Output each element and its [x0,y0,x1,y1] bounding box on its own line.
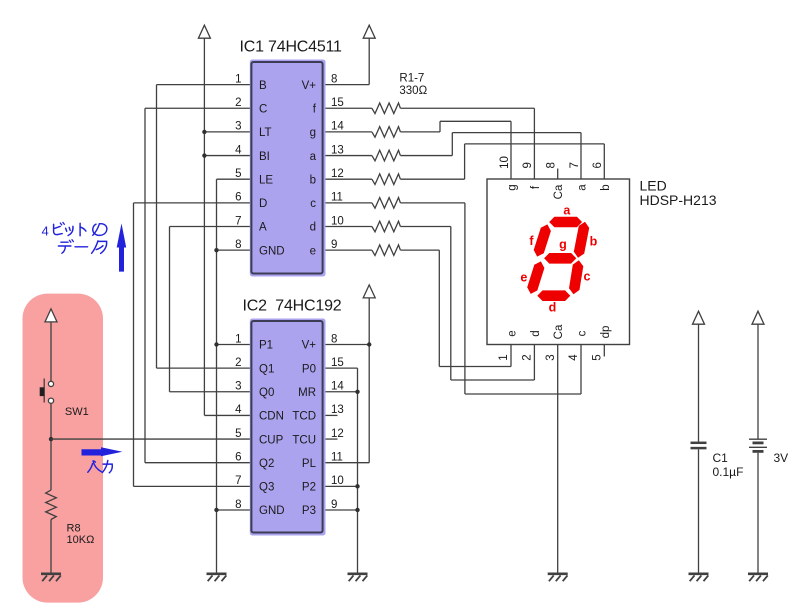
svg-text:3: 3 [235,381,241,393]
svg-text:8: 8 [235,499,241,511]
wire P2 [322,485,358,487]
svg-text:b: b [590,234,598,248]
wire LE to ground rail [217,178,253,180]
wire e [400,249,439,251]
svg-text:5: 5 [235,168,241,180]
junction LT [202,130,206,134]
wire net C-Q2 [145,107,253,109]
svg-text:d: d [310,222,316,234]
wire BI [204,155,252,157]
svg-text:e: e [310,245,316,257]
svg-text:B: B [259,80,267,92]
svg-text:P1: P1 [259,340,273,352]
svg-text:10: 10 [499,156,511,169]
resistor R5 (c) [322,202,372,204]
svg-text:D: D [259,198,267,210]
resistor R4 (b) [322,178,372,180]
svg-text:b: b [310,174,316,186]
ground under IC2 left [207,572,227,575]
svg-text:P2: P2 [302,482,316,494]
svg-text:Ca: Ca [553,184,565,199]
svg-text:V+: V+ [302,340,317,352]
svg-text:GND: GND [259,245,285,257]
svg-text:4: 4 [568,354,580,361]
svg-text:8: 8 [546,162,558,168]
svg-text:1: 1 [235,333,241,345]
wire c [400,202,465,204]
junction IC2 V+ [367,342,371,346]
svg-text:V+: V+ [302,80,317,92]
svg-text:R8: R8 [67,523,81,535]
wire C1 bottom [698,449,700,572]
svg-text:Q0: Q0 [259,387,274,399]
ground under IC2 right [348,572,368,575]
svg-text:Q2: Q2 [259,458,274,470]
svg-text:g: g [559,237,567,251]
label input (Japanese) nyuuryoku [93,461,95,462]
pink highlight region [23,294,104,603]
svg-text:11: 11 [331,452,343,464]
svg-text:b: b [600,184,612,190]
resistor R7 (e) [322,249,372,251]
wire P3 [322,509,358,511]
svg-text:7: 7 [235,215,241,227]
svg-text:9: 9 [331,499,337,511]
IC U1 74HC4511 [250,60,326,277]
wire d [400,226,450,228]
svg-text:2: 2 [235,97,241,109]
capacitor C1 [691,442,707,445]
svg-text:3: 3 [545,354,557,360]
wire IC2 GND [217,509,253,511]
svg-text:15: 15 [331,97,344,109]
wire battery bottom [757,453,759,573]
blue data arrow [117,223,127,271]
svg-text:8: 8 [331,73,337,85]
wire net A-Q0 [170,226,253,228]
svg-text:8: 8 [331,333,337,345]
svg-text:TCU: TCU [292,434,316,446]
wire PL [322,462,369,464]
svg-text:e: e [520,270,527,284]
wire switch to R8 [50,403,52,490]
LED display HDSP-H213 [487,179,630,345]
pin stub TCD [322,414,338,416]
resistor R8 [46,490,57,520]
svg-text:d: d [549,301,557,315]
wire Ca cathode [557,345,559,573]
power symbol V+ IC2 [322,344,369,346]
wire g [400,131,440,133]
svg-text:14: 14 [331,381,344,393]
svg-text:e: e [507,330,519,336]
power symbol V+ IC1 [322,84,369,86]
wire battery top [757,324,759,439]
junction IC1 GND [214,248,218,252]
power symbol V+ battery [752,311,764,324]
segment g [544,253,576,264]
junction P2 [355,484,359,488]
wire CUP input [51,438,253,440]
resistor R1 (f) [322,107,372,109]
IC U2 74HC192 [250,319,326,536]
segment c [569,260,583,294]
svg-text:d: d [530,330,542,336]
svg-text:12: 12 [331,168,344,180]
svg-text:5: 5 [235,428,241,440]
segment f [534,224,551,256]
pin stub TCU [322,438,338,440]
svg-text:10KΩ: 10KΩ [67,534,95,546]
svg-text:15: 15 [331,357,344,369]
svg-text:c: c [584,270,591,284]
svg-text:g: g [310,127,316,139]
svg-text:7: 7 [569,162,581,168]
junction MR [355,390,359,394]
resistor R3 (a) [322,155,372,157]
svg-text:C1: C1 [713,451,729,465]
svg-text:9: 9 [331,239,337,251]
wire switch top [50,322,52,381]
svg-text:6: 6 [235,452,241,464]
label line2: de-ta [61,241,68,243]
svg-text:A: A [259,222,267,234]
wire MR [322,391,358,393]
svg-text:CDN: CDN [259,411,284,423]
svg-text:0.1µF: 0.1µF [713,465,744,479]
ground under LED [548,572,568,575]
junction P3 [355,508,359,512]
svg-text:P0: P0 [302,363,316,375]
ground under C1 [689,572,709,575]
wire P0 to ground rail [322,367,358,369]
junction IC2 GND [214,508,218,512]
svg-text:8: 8 [235,239,241,251]
svg-text:g: g [507,184,519,190]
wire LT [204,131,252,133]
wire f [400,107,534,109]
segment e [527,261,544,294]
svg-text:10: 10 [331,215,344,227]
wire net D-Q3 [134,202,253,204]
wire a [400,155,452,157]
svg-text:C: C [259,103,267,115]
svg-text:MR: MR [298,387,316,399]
svg-text:1: 1 [498,354,510,360]
svg-text:Q1: Q1 [259,363,274,375]
svg-text:4: 4 [42,223,49,238]
svg-text:CUP: CUP [259,434,284,446]
svg-text:a: a [563,204,571,218]
svg-text:R1-7: R1-7 [399,73,424,85]
segment a [549,217,582,228]
svg-text:4: 4 [235,404,242,416]
wire C1 top [698,324,700,441]
svg-text:10: 10 [331,475,344,487]
svg-text:TCD: TCD [292,411,316,423]
svg-text:LE: LE [259,174,273,186]
pin stub Ca top [557,169,559,180]
wire CDN [204,414,252,416]
power symbol V+ C1 [693,311,705,324]
svg-text:3: 3 [235,121,241,133]
svg-text:GND: GND [259,505,285,517]
wire IC1 GND [217,249,253,251]
svg-text:IC2 74HC192: IC2 74HC192 [243,298,342,315]
svg-text:9: 9 [522,162,534,168]
svg-text:2: 2 [235,357,241,369]
svg-text:6: 6 [235,192,241,204]
svg-text:11: 11 [331,192,343,204]
wire net B-Q1 [157,84,253,86]
svg-text:SW1: SW1 [65,406,89,418]
ground under battery [748,572,768,575]
svg-text:a: a [577,184,589,191]
svg-text:c: c [577,330,589,336]
svg-text:HDSP-H213: HDSP-H213 [640,192,717,208]
svg-text:12: 12 [331,428,344,440]
svg-text:c: c [310,198,316,210]
ground under R8 [41,572,61,575]
svg-text:1: 1 [235,73,241,85]
junction input node [49,437,53,441]
svg-text:PL: PL [302,458,317,470]
svg-text:13: 13 [331,144,344,156]
svg-text:LT: LT [259,127,272,139]
svg-text:Ca: Ca [553,324,565,339]
svg-text:6: 6 [592,162,604,168]
switch SW1 [48,381,53,386]
pin stub dp bottom [603,345,605,357]
svg-text:7: 7 [235,475,241,487]
wire R8 to ground [50,520,52,573]
blue input arrow [82,447,123,456]
svg-text:5: 5 [592,354,604,360]
wire b [400,178,464,180]
svg-text:13: 13 [331,404,344,416]
battery 3V [749,438,767,440]
svg-text:4: 4 [235,144,242,156]
svg-text:Q3: Q3 [259,482,274,494]
power symbol V+ switch [45,309,57,322]
svg-text:2: 2 [522,354,534,360]
svg-text:dp: dp [600,326,612,339]
svg-text:BI: BI [259,151,270,163]
segment b [574,222,589,258]
svg-text:3V: 3V [774,451,789,465]
power symbol V+ left [203,38,205,415]
svg-text:IC1 74HC4511: IC1 74HC4511 [240,39,343,56]
segment d [537,290,570,301]
wire P1 [217,344,253,346]
resistor R2 (g) [322,131,372,133]
svg-text:a: a [310,151,317,163]
svg-text:P3: P3 [302,505,316,517]
junction P1 [214,342,218,346]
svg-text:14: 14 [331,121,344,133]
svg-text:330Ω: 330Ω [399,85,427,97]
junction BI [202,153,206,157]
resistor R6 (d) [322,226,372,228]
